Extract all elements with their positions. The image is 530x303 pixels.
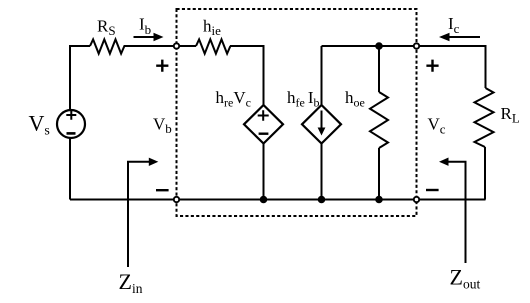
svg-text:hreVc: hreVc <box>216 88 251 110</box>
svg-text:Ib: Ib <box>139 15 151 38</box>
svg-text:Ic: Ic <box>448 14 460 36</box>
svg-text:Vc: Vc <box>428 115 446 137</box>
svg-text:Zout: Zout <box>450 265 481 292</box>
svg-text:hoe: hoe <box>345 88 365 110</box>
svg-text:Zin: Zin <box>119 269 143 296</box>
svg-text:RL: RL <box>501 104 520 126</box>
svg-text:hie: hie <box>203 17 221 39</box>
svg-text:Vb: Vb <box>153 114 172 136</box>
svg-text:RS: RS <box>97 17 116 39</box>
svg-text:hfeIb: hfeIb <box>287 88 320 110</box>
svg-text:Vs: Vs <box>29 111 50 139</box>
